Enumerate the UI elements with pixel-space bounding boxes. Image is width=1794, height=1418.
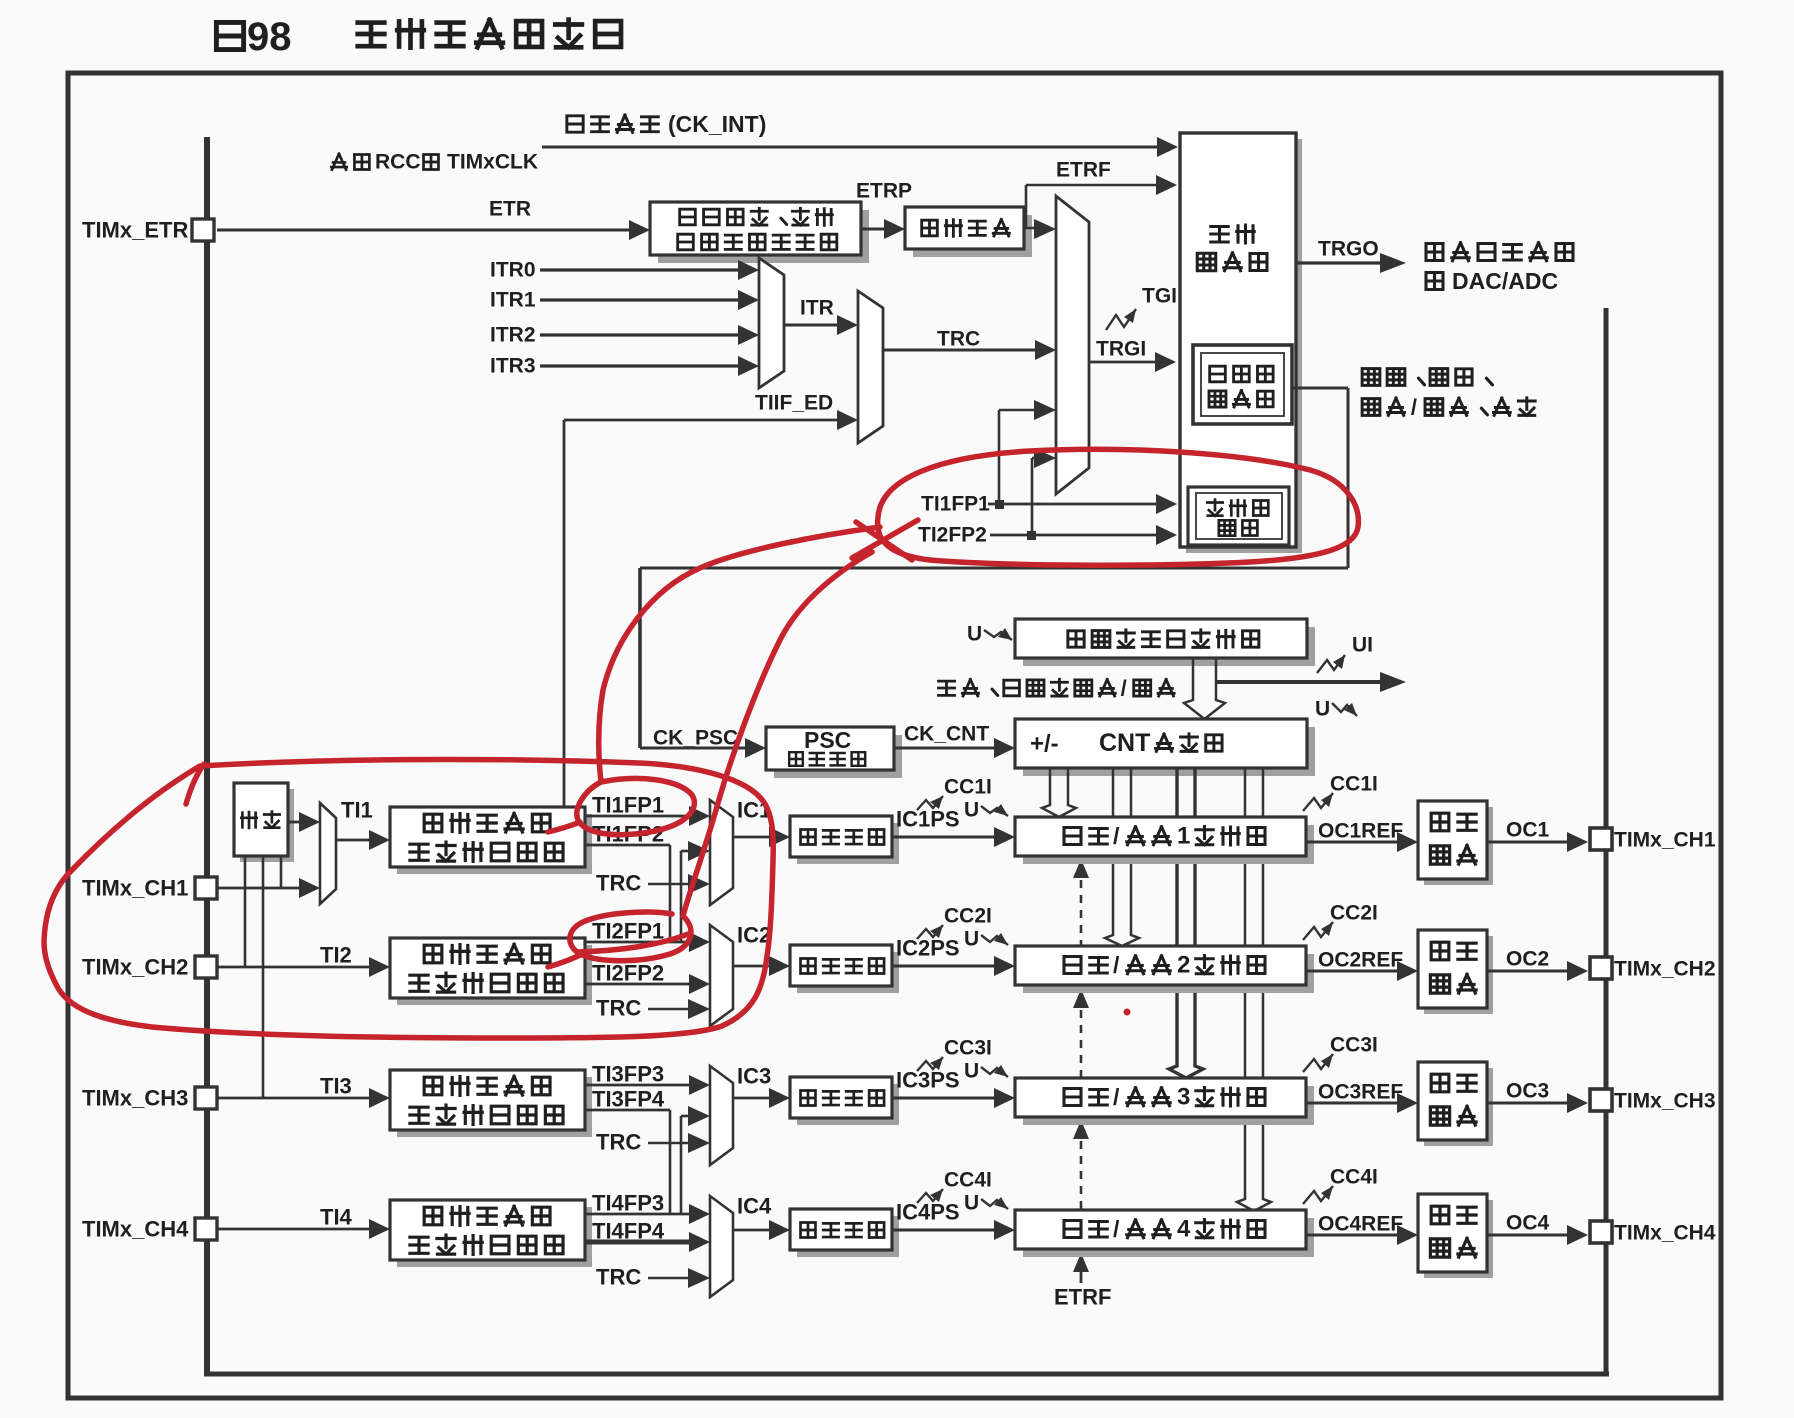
svg-text:U: U [964,799,979,822]
svg-text:CC3I: CC3I [1330,1034,1378,1057]
svg-text:CC4I: CC4I [944,1169,992,1192]
svg-text:TI1FP1: TI1FP1 [592,793,664,818]
svg-text:ITR0: ITR0 [490,259,536,282]
svg-text:TGI: TGI [1142,285,1177,308]
svg-text:TIMx_CH2: TIMx_CH2 [1614,958,1716,981]
svg-text:TI2FP2: TI2FP2 [592,961,664,986]
svg-text:ETRF: ETRF [1056,159,1111,182]
svg-text:CC1I: CC1I [1330,773,1378,796]
svg-text:OC3REF: OC3REF [1318,1081,1403,1104]
svg-text:U: U [964,1060,979,1083]
svg-text:TIMx_CH4: TIMx_CH4 [82,1217,189,1242]
svg-text:OC3: OC3 [1506,1080,1549,1103]
svg-text:RCC: RCC [375,151,421,174]
svg-text:OC4REF: OC4REF [1318,1213,1403,1236]
svg-text:TIMx_CH1: TIMx_CH1 [1614,829,1716,852]
svg-text:+/-: +/- [1030,731,1059,758]
svg-text:CC1I: CC1I [944,776,992,799]
svg-text:OC2REF: OC2REF [1318,949,1403,972]
svg-text:(CK_INT): (CK_INT) [668,111,766,137]
svg-text:TIMx_CH2: TIMx_CH2 [82,955,188,980]
svg-text:UI: UI [1352,634,1373,657]
svg-text:CK_CNT: CK_CNT [904,723,989,746]
svg-text:TI4FP3: TI4FP3 [592,1191,664,1216]
svg-text:TRC: TRC [596,1265,641,1290]
svg-text:U: U [1315,698,1330,721]
svg-text:3: 3 [1177,1084,1190,1111]
svg-text:OC2: OC2 [1506,948,1549,971]
svg-text:IC3PS: IC3PS [896,1068,960,1093]
svg-text:ETR: ETR [489,198,531,221]
svg-text:TRGI: TRGI [1096,338,1146,361]
svg-text:U: U [964,928,979,951]
svg-text:TI1: TI1 [341,798,373,823]
svg-text:TRC: TRC [596,871,641,896]
svg-text:TI3FP4: TI3FP4 [592,1087,665,1112]
svg-text:U: U [964,1192,979,1215]
svg-text:/: / [1411,395,1417,420]
svg-text:TI2: TI2 [320,943,352,968]
svg-text:ITR1: ITR1 [490,289,536,312]
svg-text:CC3I: CC3I [944,1037,992,1060]
svg-text:CNT: CNT [1099,729,1150,757]
svg-text:PSC: PSC [804,727,851,753]
svg-text:/: / [1121,676,1127,701]
svg-text:TI3: TI3 [320,1074,352,1099]
svg-text:TIMx_CH3: TIMx_CH3 [82,1086,188,1111]
svg-text:U: U [967,623,982,646]
svg-text:IC4: IC4 [737,1194,772,1219]
svg-text:TIMx_ETR: TIMx_ETR [82,218,188,243]
svg-text:IC4PS: IC4PS [896,1200,960,1225]
svg-text:ETRF: ETRF [1054,1285,1111,1310]
svg-text:TI1FP1: TI1FP1 [921,493,990,516]
svg-text:1: 1 [1177,823,1190,850]
svg-text:ITR2: ITR2 [490,324,536,347]
svg-text:OC1REF: OC1REF [1318,820,1403,843]
svg-text:IC2PS: IC2PS [896,936,960,961]
svg-text:TRGO: TRGO [1318,238,1379,261]
svg-text:TI2FP2: TI2FP2 [918,524,987,547]
svg-text:98: 98 [247,15,292,59]
svg-text:IC3: IC3 [737,1064,771,1089]
svg-text:TRC: TRC [596,1130,641,1155]
svg-text:TIMx_CH3: TIMx_CH3 [1614,1090,1716,1113]
svg-text:/: / [1113,1216,1120,1242]
svg-text:CC2I: CC2I [1330,902,1378,925]
svg-text:ETRP: ETRP [856,180,912,203]
svg-text:4: 4 [1177,1216,1191,1243]
svg-text:/: / [1113,952,1120,978]
svg-text:TI2FP1: TI2FP1 [592,919,664,944]
svg-text:/: / [1113,823,1120,849]
svg-text:IC1PS: IC1PS [896,807,960,832]
svg-text:TIMxCLK: TIMxCLK [447,151,538,174]
svg-text:TRC: TRC [937,328,980,351]
svg-text:CC4I: CC4I [1330,1166,1378,1189]
svg-text:CK_PSC: CK_PSC [653,727,738,750]
svg-text:TIMx_CH4: TIMx_CH4 [1614,1222,1716,1245]
svg-text:TIIF_ED: TIIF_ED [755,392,833,415]
svg-text:TI4: TI4 [320,1205,353,1230]
svg-text:/: / [1113,1084,1120,1110]
svg-text:CC2I: CC2I [944,905,992,928]
svg-text:ITR3: ITR3 [490,355,536,378]
svg-text:TRC: TRC [596,996,641,1021]
svg-text:TIMx_CH1: TIMx_CH1 [82,876,188,901]
svg-text:OC4: OC4 [1506,1212,1550,1235]
svg-text:TI3FP3: TI3FP3 [592,1062,664,1087]
svg-text:ITR: ITR [800,297,834,320]
svg-text:DAC/ADC: DAC/ADC [1452,268,1558,294]
svg-text:OC1: OC1 [1506,819,1550,842]
svg-text:2: 2 [1177,952,1190,979]
